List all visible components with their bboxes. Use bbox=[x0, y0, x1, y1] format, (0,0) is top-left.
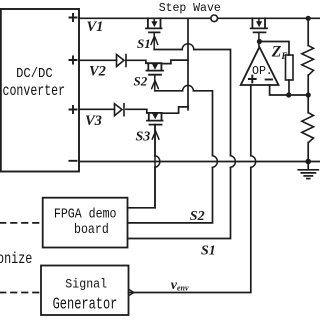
transistor S3 bbox=[147, 113, 163, 208]
wire (rail bottom) bbox=[307, 143, 309, 162]
svg-text:.: . bbox=[266, 65, 273, 78]
svg-text:F: F bbox=[281, 51, 288, 61]
hop (S3 ctrl over bottom bus) bbox=[155, 156, 160, 168]
svg-text:Step Wave: Step Wave bbox=[159, 1, 221, 15]
op-amp + input sign bbox=[249, 76, 256, 83]
FPGA demo board box bbox=[43, 198, 128, 248]
wire (ZF bottom to inverting node) bbox=[288, 80, 290, 95]
wire (collector vertical joining S2,S3 outputs to bus) bbox=[187, 18, 189, 110]
node circle (step wave probe) bbox=[211, 15, 218, 22]
svg-text:V2: V2 bbox=[89, 64, 106, 80]
wire V3 bbox=[79, 107, 188, 113]
transistor S1 bbox=[146, 18, 162, 49]
wire S3 control (gate run to FPGA) bbox=[128, 125, 156, 208]
wire S2 control (gate run to FPGA) bbox=[128, 91, 213, 223]
svg-text:FPGA demo: FPGA demo bbox=[54, 206, 117, 222]
svg-text:S2: S2 bbox=[134, 74, 148, 89]
svg-text:V3: V3 bbox=[85, 113, 102, 129]
hop (S1 ctrl over bottom bus) bbox=[231, 156, 236, 168]
node (inverting input junction) bbox=[286, 92, 291, 97]
ground bbox=[298, 162, 318, 179]
transistor M4 (series pass) bbox=[251, 18, 267, 46]
wire (between resistors) bbox=[307, 75, 309, 113]
op-amp - input sign bbox=[266, 79, 272, 81]
svg-text:DC/DC: DC/DC bbox=[16, 65, 53, 81]
node (divider tap) bbox=[306, 92, 311, 97]
resistor R2 bbox=[302, 113, 314, 143]
op-amp U1 bbox=[241, 47, 279, 85]
DC/DC converter box bbox=[1, 9, 79, 172]
svg-text:S3: S3 bbox=[136, 129, 151, 144]
node (bus to resistor rail) bbox=[306, 16, 311, 21]
terminal - bbox=[70, 160, 77, 162]
svg-text:onize: onize bbox=[0, 252, 32, 269]
arrowhead (signal generator output) bbox=[129, 289, 134, 295]
hop (S1 ctrl over collector vertical) bbox=[182, 44, 194, 50]
svg-text:S1: S1 bbox=[137, 36, 151, 51]
diode D3 bbox=[115, 104, 125, 116]
hop (S2 ctrl over bottom bus) bbox=[213, 156, 218, 168]
transistor S2 bbox=[146, 63, 163, 91]
dashed synchronize line to FPGA bbox=[0, 222, 43, 224]
impedance ZF box bbox=[286, 55, 294, 80]
wire (rail top) bbox=[307, 18, 309, 45]
wire S1 control (gate run to FPGA) bbox=[128, 50, 231, 239]
wire V1 / step-wave bus bbox=[79, 17, 320, 19]
hop (S2 ctrl over collector vertical) bbox=[183, 85, 194, 90]
node (ground junction) bbox=[305, 159, 311, 165]
svg-text:Generator: Generator bbox=[53, 296, 118, 314]
node (gate/op-amp output junction) bbox=[257, 39, 262, 44]
wire V2 bbox=[79, 60, 188, 64]
terminal + (V1) bbox=[70, 14, 77, 21]
svg-text:converter: converter bbox=[3, 83, 66, 100]
terminal + (V3) bbox=[70, 106, 77, 113]
wire (inverting node to divider tap) bbox=[289, 94, 309, 96]
wire (bottom bus) bbox=[79, 161, 320, 163]
dashed synchronize line to Signal Generator bbox=[0, 292, 41, 294]
wire (op-amp - input lead) bbox=[270, 85, 289, 95]
svg-text:V1: V1 bbox=[87, 19, 104, 35]
svg-text:Z: Z bbox=[271, 43, 282, 60]
wire v_env (op-amp + input to signal generator) bbox=[129, 85, 251, 293]
svg-text:OP: OP bbox=[252, 65, 266, 78]
svg-text:env: env bbox=[177, 283, 189, 292]
hop (v_env over bottom bus) bbox=[251, 156, 256, 168]
svg-text:S1: S1 bbox=[201, 244, 216, 259]
svg-text:S2: S2 bbox=[190, 209, 205, 224]
Signal Generator box bbox=[41, 266, 129, 316]
wire (feedback from gate node to ZF top) bbox=[259, 42, 289, 56]
svg-text:Signal: Signal bbox=[65, 277, 107, 292]
diode D2 bbox=[117, 55, 127, 67]
resistor R1 bbox=[302, 46, 314, 76]
svg-text:board: board bbox=[74, 221, 109, 237]
terminal + (V2) bbox=[70, 57, 77, 64]
